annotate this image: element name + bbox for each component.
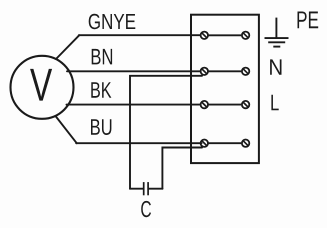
label BK [91, 82, 111, 98]
label GNYE [89, 14, 136, 29]
screw 1R [242, 32, 249, 39]
terminal screws [201, 32, 250, 147]
screw 3L [201, 101, 208, 108]
capacitor C plates [144, 182, 148, 195]
wire capacitor branch to L terminal [162, 148, 202, 189]
label V (motor) [30, 69, 52, 101]
screw 2L [201, 68, 208, 75]
wire terminal row 4 between screws [209, 142, 242, 144]
screw 2R [242, 68, 249, 75]
wire BU diagonal from motor [56, 116, 77, 143]
wire capacitor right lead [149, 188, 163, 190]
wire BN horizontal [67, 70, 200, 72]
label BU [91, 119, 111, 135]
wire GNYE horizontal [79, 34, 200, 36]
wire BU horizontal [76, 142, 201, 144]
wire terminal row 3 (L) between screws [209, 104, 242, 106]
label BN [92, 49, 112, 65]
motor/fan symbol M1 (circle V) [11, 56, 74, 119]
wire capacitor left lead [130, 188, 143, 190]
screw 1L [201, 32, 208, 39]
label N [270, 59, 281, 74]
terminal block X1 [191, 15, 259, 163]
screw 4R [242, 140, 249, 147]
label L [271, 95, 278, 111]
wire BK horizontal [67, 104, 201, 106]
wire terminal row 2 (N) between screws [209, 70, 242, 72]
label PE [298, 12, 319, 29]
wire GNYE diagonal from motor [56, 35, 79, 59]
screw 4L [201, 140, 208, 147]
wire capacitor branch to N terminal [130, 76, 202, 189]
label C [141, 201, 151, 217]
screw 3R [242, 101, 249, 108]
ground symbol (PE earth) [265, 18, 289, 47]
wire terminal row 1 (PE) between screws [209, 34, 242, 36]
